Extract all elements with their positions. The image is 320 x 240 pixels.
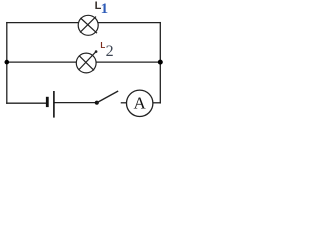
svg-text:1: 1 <box>101 1 109 17</box>
svg-text:A: A <box>134 94 147 113</box>
svg-text:2: 2 <box>106 43 114 60</box>
